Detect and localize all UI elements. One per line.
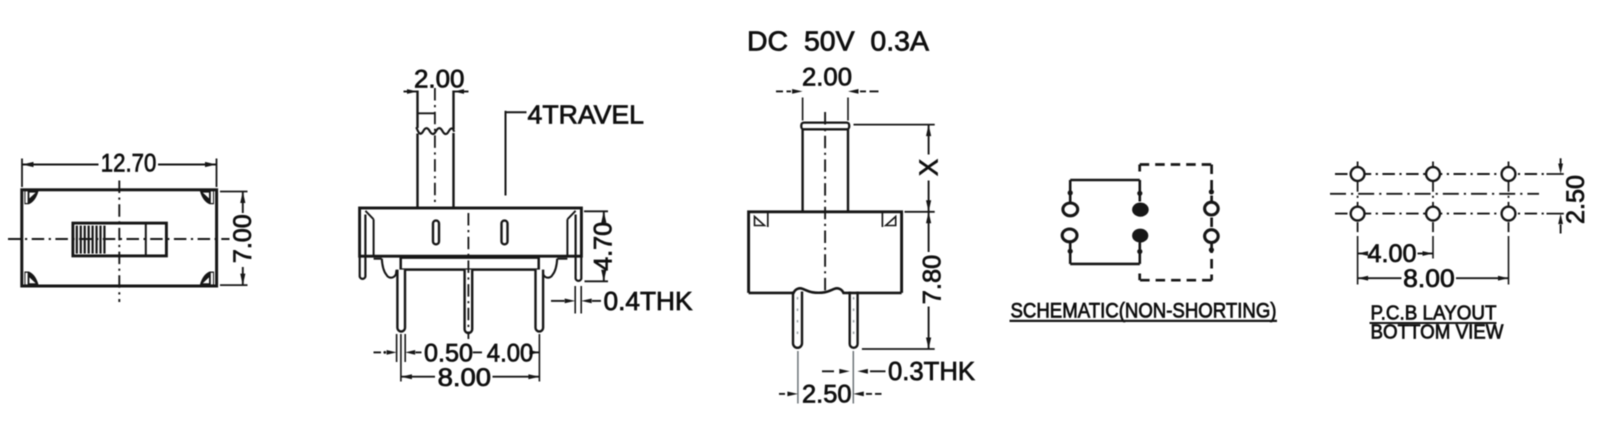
- dimension 4.00 (front) line segments: [473, 351, 482, 353]
- dimension 0.4THK arrows: [551, 300, 565, 302]
- svg-text:0.50: 0.50: [424, 339, 473, 367]
- side view centerline: [824, 112, 826, 295]
- schematic wire bottom: [1070, 263, 1140, 266]
- front view left mounting ear: [360, 208, 366, 279]
- pcb dimension 4.00 line and arrows: [1358, 253, 1366, 255]
- front view right mounting ear: [576, 208, 582, 281]
- front view knob shaft right edge: [452, 91, 454, 130]
- side view pin 2: [850, 292, 858, 348]
- pcb dimension 8.00 line and arrows: [1358, 277, 1402, 279]
- schematic wire top: [1070, 179, 1140, 182]
- front view knob shaft left edge: [416, 91, 418, 129]
- front view cover slot left: [433, 221, 439, 245]
- side view corner mark right: [886, 217, 896, 226]
- dimension 8.00 (front) line and arrows: [401, 376, 435, 378]
- side view body outline: [749, 212, 902, 293]
- top view corner mark bottom-right: [200, 272, 214, 286]
- pcb row centerline bottom: [1335, 213, 1544, 215]
- X dimension extension lines: [854, 124, 935, 126]
- pcb hole 3: [1502, 167, 1516, 181]
- schematic common pole bottom (filled): [1132, 229, 1148, 243]
- pcb hole 5: [1426, 207, 1440, 221]
- pcb hole 1: [1351, 167, 1365, 181]
- svg-text:7.00: 7.00: [229, 214, 257, 263]
- pcb hole column 2 centerline: [1432, 162, 1434, 233]
- side view dimension 2.00 extension lines: [802, 98, 804, 121]
- svg-text:2.00: 2.00: [414, 65, 465, 93]
- pcb hole 4: [1351, 207, 1365, 221]
- front view right crimp bump with notch: [542, 259, 557, 278]
- front view knob centerline: [434, 88, 436, 206]
- svg-text:0.4THK: 0.4THK: [604, 286, 694, 316]
- front view left ledge: [374, 258, 382, 260]
- svg-text:2.50: 2.50: [802, 380, 852, 408]
- schematic junction dots: [1068, 190, 1073, 195]
- svg-text:4.70: 4.70: [590, 222, 618, 271]
- svg-text:4.00: 4.00: [487, 339, 534, 367]
- svg-text:2.50: 2.50: [1562, 175, 1590, 224]
- svg-text:4.00: 4.00: [1368, 240, 1417, 268]
- front view left ear chamfer: [365, 211, 373, 220]
- side view knob cap: [801, 123, 849, 130]
- pcb layout title underline: [1370, 322, 1497, 324]
- top view: switch body outline: [22, 190, 217, 286]
- right pin center extension: [538, 334, 540, 382]
- dimension 4.70 extension lines: [584, 210, 608, 212]
- pcb hole 2: [1426, 167, 1440, 181]
- 4TRAVEL leader line: [505, 111, 507, 196]
- front view left inner wall: [373, 219, 375, 256]
- side view corner mark left: [755, 217, 765, 226]
- dimension 4.70 line and arrows: [603, 211, 605, 220]
- schematic terminal pin 1 (open): [1063, 203, 1078, 216]
- side view dimension 2.50 extension lines: [797, 351, 799, 404]
- front view right ear chamfer: [567, 211, 575, 220]
- side view dimension 2.50 line and arrows: [779, 393, 785, 395]
- schematic terminal pin 6 (open): [1205, 230, 1219, 243]
- svg-text:7.80: 7.80: [919, 255, 947, 305]
- pcb dimension extension lines: [1357, 236, 1359, 285]
- svg-text:4TRAVEL: 4TRAVEL: [528, 99, 645, 129]
- front view vertical centerline: [467, 213, 469, 339]
- dimension 7.00 extension lines: [220, 191, 248, 193]
- dimension 0.3THK arrows: [822, 370, 834, 372]
- pcb middle centerline: [1330, 193, 1539, 195]
- svg-text:SCHEMATIC(NON-SHORTING): SCHEMATIC(NON-SHORTING): [1011, 298, 1277, 322]
- top view horizontal centerline: [8, 238, 230, 240]
- front view left crimp bump with notch: [382, 259, 397, 278]
- side view pin 1: [793, 292, 802, 348]
- pcb hole 6: [1502, 207, 1516, 221]
- front view right inner wall: [566, 219, 568, 256]
- top view knob divider: [145, 223, 147, 256]
- schematic terminal pin 4 (open): [1062, 229, 1077, 242]
- svg-text:DC 50V 0.3A: DC 50V 0.3A: [747, 26, 929, 57]
- pcb dimension 2.50 line and arrows: [1560, 158, 1562, 163]
- pcb hole column 3 centerline: [1508, 162, 1510, 233]
- front view right ledge: [557, 258, 567, 260]
- side view body bottom wavy edge: [749, 288, 902, 293]
- schematic common pole top (filled): [1132, 203, 1149, 217]
- front view metal cover: [360, 208, 582, 256]
- front view dimension 2.00 line and arrows: [404, 91, 418, 93]
- side view knob sides: [801, 129, 803, 212]
- svg-text:8.00: 8.00: [438, 364, 492, 392]
- front view pin 2: [465, 270, 473, 333]
- dimension 0.50 extension lines: [396, 334, 398, 362]
- dimension 7.80 line and arrows: [928, 212, 930, 252]
- svg-text:0.3THK: 0.3THK: [888, 356, 976, 386]
- top view slider knob: [73, 223, 166, 256]
- top view vertical centerline: [118, 181, 120, 303]
- top view knob hatch serrations: [76, 226, 78, 254]
- svg-text:2.00: 2.00: [802, 63, 852, 91]
- dimension 12.70 line and arrows: [22, 164, 99, 166]
- dimension 0.50 arrows and leaders: [374, 351, 382, 353]
- front view knob break squiggle: [416, 127, 454, 134]
- svg-text:BOTTOM VIEW: BOTTOM VIEW: [1371, 321, 1505, 344]
- pcb row centerline top: [1335, 173, 1544, 175]
- X dimension line and arrows: [928, 125, 930, 155]
- svg-text:8.00: 8.00: [1403, 265, 1455, 293]
- svg-text:X: X: [914, 159, 944, 176]
- schematic terminal pin 3 (open): [1205, 202, 1219, 215]
- top view corner mark top-right: [200, 191, 214, 205]
- schematic dashed enclosure top/right/bottom: [1140, 163, 1212, 166]
- svg-text:12.70: 12.70: [101, 150, 157, 178]
- front view knob travel tick: [418, 112, 436, 114]
- pcb hole column 1 centerline: [1357, 162, 1359, 233]
- top view corner mark top-left: [24, 191, 38, 205]
- schematic dashed enclosure left stubs: [1138, 165, 1141, 172]
- dimension 7.00 line and arrows: [242, 192, 244, 214]
- side view dimension 2.00 line and arrows: [776, 90, 783, 92]
- dimension 12.70 extension lines: [21, 159, 23, 188]
- dimension 0.4THK extension ticks: [574, 286, 576, 314]
- front view pin 1: [397, 270, 405, 332]
- schematic title underline: [1010, 320, 1278, 322]
- top view corner mark bottom-left: [24, 272, 38, 286]
- front view cover slot right: [502, 221, 508, 245]
- front view base plate: [401, 258, 539, 270]
- front view pin 3: [536, 270, 544, 332]
